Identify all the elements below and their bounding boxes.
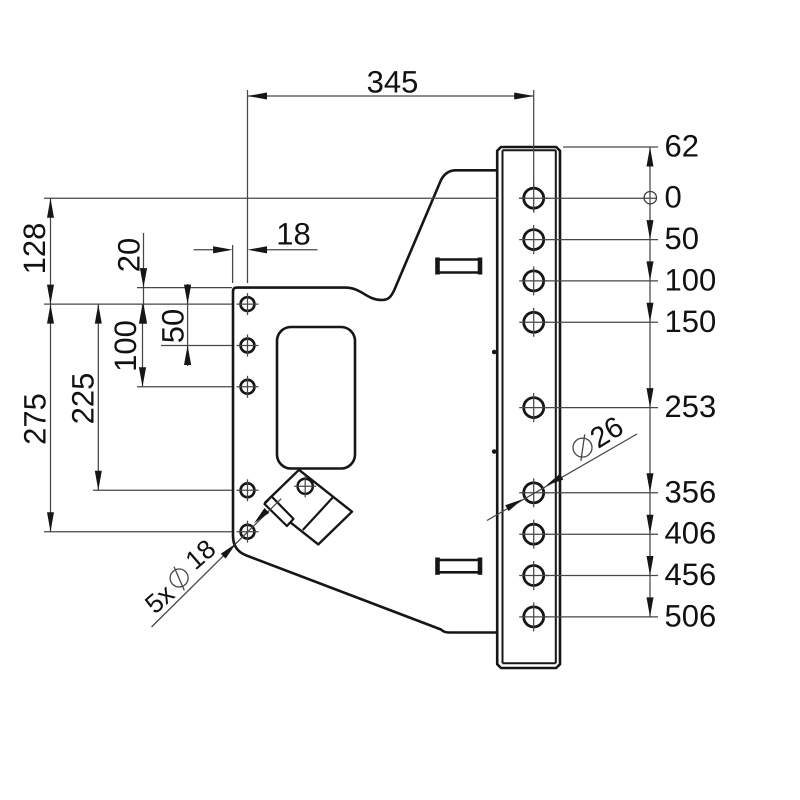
bar hole at 456	[524, 566, 544, 586]
extension line 253	[545, 407, 658, 409]
dimension 128 line	[50, 198, 52, 304]
leader 26 arrow upper	[546, 474, 563, 486]
svg-text:50: 50	[665, 221, 699, 256]
lock internal dividing line	[303, 497, 334, 530]
dimension 100 top arrow	[139, 304, 146, 324]
dimension 20 lower arrow	[140, 304, 147, 324]
svg-text:275: 275	[18, 393, 53, 445]
plate hole y=345.5	[241, 339, 255, 353]
extension line 406	[545, 533, 658, 535]
bar hole at 253	[524, 398, 544, 418]
datum origin circle	[644, 192, 656, 204]
dimension 18 left tail	[194, 249, 216, 251]
dimension 128 bottom arrow	[47, 285, 54, 305]
dimension 345 line	[248, 95, 534, 97]
lock bracket (rotated square pair)	[265, 470, 352, 545]
svg-text:225: 225	[66, 373, 101, 425]
bar hole at 150	[524, 312, 544, 332]
plate hole y=490.3	[241, 483, 255, 497]
extension line from 345 dim left	[247, 90, 249, 283]
dimension 275 bottom arrow	[47, 512, 54, 532]
extension line 506	[545, 616, 658, 618]
svg-text:506: 506	[665, 598, 717, 633]
bar inner edge lines	[503, 150, 556, 663]
plate hole y=531.7	[241, 525, 255, 539]
dimension 345 left arrow	[248, 93, 268, 100]
svg-text:100: 100	[665, 262, 717, 297]
diameter symbol 18	[170, 569, 188, 587]
left extension line y=304.1	[44, 303, 232, 305]
leader 26 arrow lower	[505, 499, 522, 511]
svg-text:128: 128	[17, 223, 52, 275]
svg-text:406: 406	[665, 516, 717, 551]
extension line 356	[545, 492, 658, 494]
dimension 50 line	[187, 284, 189, 366]
side plate outline	[233, 170, 498, 632]
extension line from 345 dim right	[533, 90, 535, 212]
bar hole at 406	[524, 524, 544, 544]
extension line 50	[545, 239, 658, 241]
dimension 18 right tail	[264, 249, 318, 251]
lock strip tab	[265, 496, 294, 526]
dimension 20 upper arrow	[140, 268, 147, 288]
extension line 456	[545, 575, 658, 577]
dimension 225 line	[97, 304, 99, 490]
dimension 225 top arrow	[95, 304, 102, 324]
bar hole at 356	[524, 483, 544, 503]
leader line 5x d18	[152, 499, 282, 627]
extension line 150	[545, 321, 658, 323]
svg-text:100: 100	[108, 320, 143, 372]
svg-text:50: 50	[156, 309, 191, 343]
svg-text:345: 345	[367, 65, 419, 100]
arrow up to 62 line	[647, 147, 654, 167]
dimension 128 top arrow	[47, 198, 54, 218]
svg-text:20: 20	[112, 238, 147, 272]
svg-text:0: 0	[665, 180, 682, 215]
bar hole at 50	[524, 230, 544, 250]
svg-text:18: 18	[180, 534, 222, 576]
arrow down to 253 line	[647, 388, 654, 408]
arrow down to 506 line	[647, 597, 654, 617]
62 extension line	[563, 146, 658, 148]
rounded rectangular cutout	[277, 327, 355, 469]
leader 18 arrow lower	[221, 544, 236, 559]
dimension 275 top arrow	[47, 304, 54, 324]
weld tack marks on bar left edge	[492, 350, 497, 355]
dimension 20 line	[143, 233, 145, 322]
svg-text:356: 356	[665, 474, 717, 509]
svg-text:456: 456	[665, 557, 717, 592]
lock pivot hole	[298, 479, 313, 494]
left extension line y=531.7	[44, 531, 232, 533]
arrow down to 150 line	[647, 303, 654, 323]
bar hole at 100	[524, 271, 544, 291]
left extension line y=386.8	[137, 386, 232, 388]
slot 1	[438, 258, 481, 275]
arrow down to 356 line	[647, 473, 654, 493]
arrow down to 406 line	[647, 515, 654, 535]
arrow down to 100 line	[647, 261, 654, 281]
right dimension chain line	[649, 147, 651, 617]
diameter symbol 26	[573, 438, 592, 457]
arrow down to 50 line	[647, 220, 654, 240]
dimension 50 upper arrow	[184, 285, 191, 305]
left extension line y=490.3	[93, 489, 232, 491]
svg-text:253: 253	[665, 389, 717, 424]
bar hole at 0	[524, 188, 544, 208]
extension line plate corner (18 dim)	[232, 245, 234, 283]
dimension 18 left arrow	[213, 246, 233, 253]
vertical adjustment bar	[497, 147, 560, 668]
svg-text:62: 62	[665, 129, 699, 164]
dimension 100 line	[142, 304, 144, 387]
dimension 275 line	[50, 304, 52, 532]
extension line 100	[545, 280, 658, 282]
plate hole y=304.1	[241, 297, 255, 311]
datum 0 extension line	[44, 197, 497, 199]
left extension line y=345.5	[161, 345, 232, 347]
dimension 345 right arrow	[514, 93, 534, 100]
svg-text:150: 150	[665, 304, 717, 339]
dimension 18 right arrow	[248, 246, 268, 253]
slot 2	[438, 558, 481, 575]
plate hole y=386.8	[241, 380, 255, 394]
bar hole at 506	[524, 607, 544, 627]
leader 18 arrow upper	[254, 508, 269, 523]
svg-text:18: 18	[276, 217, 310, 252]
leader line d26	[487, 434, 637, 521]
dimension 100 bottom arrow	[139, 367, 146, 387]
dimension 225 bottom arrow	[95, 471, 102, 491]
dimension 50 lower arrow	[184, 346, 191, 366]
plate top extension line	[137, 287, 232, 289]
arrow down to 456 line	[647, 556, 654, 576]
